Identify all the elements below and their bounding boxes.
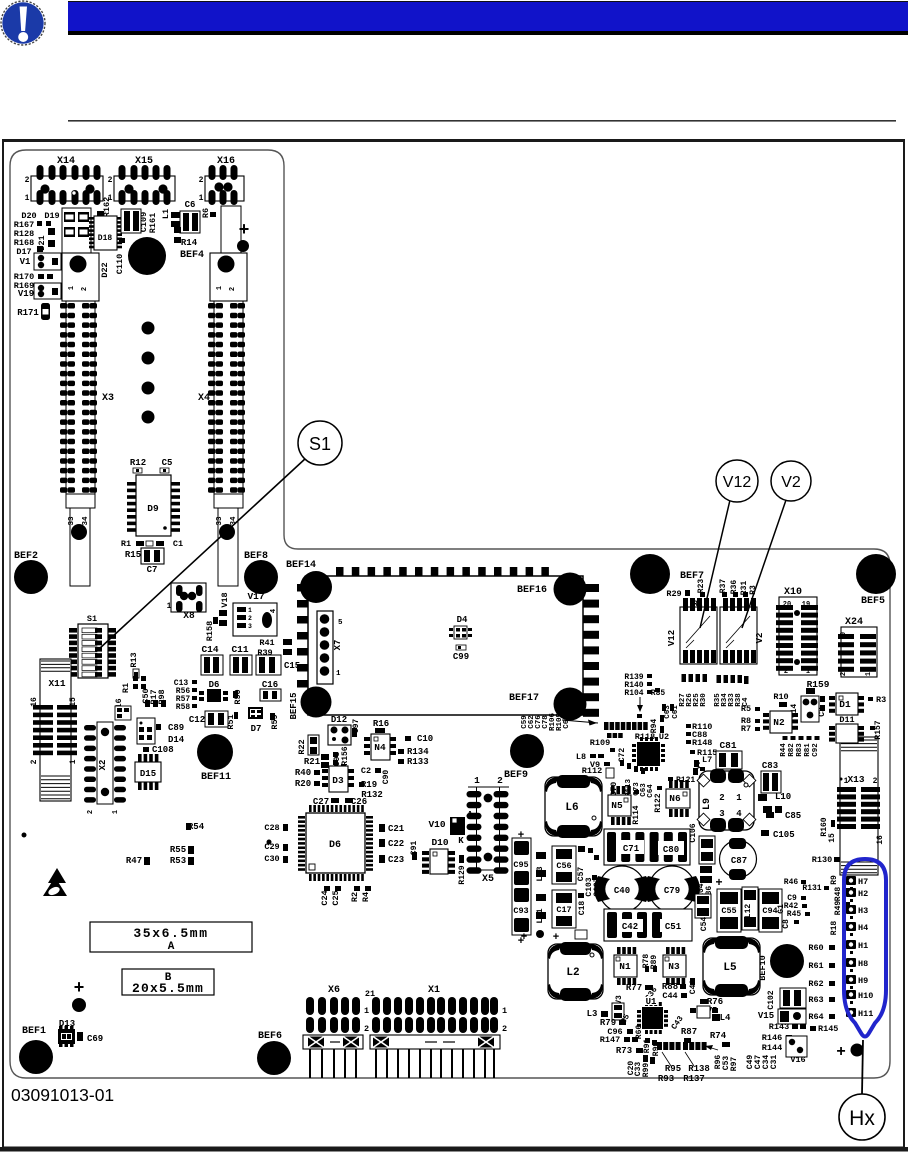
- svg-text:L11: L11: [535, 908, 545, 923]
- svg-text:X8: X8: [183, 610, 195, 621]
- svg-text:R160: R160: [820, 817, 829, 836]
- svg-text:21: 21: [365, 989, 375, 999]
- svg-text:R82: R82: [788, 743, 796, 757]
- svg-text:R10: R10: [773, 692, 788, 702]
- svg-text:H2: H2: [858, 889, 868, 899]
- svg-text:R48: R48: [834, 887, 843, 902]
- svg-text:BEF15: BEF15: [289, 692, 299, 719]
- svg-text:C12: C12: [189, 715, 205, 725]
- svg-text:R1: R1: [121, 683, 131, 693]
- svg-text:C42: C42: [622, 922, 638, 932]
- svg-text:R157: R157: [874, 720, 883, 739]
- svg-text:X4: X4: [198, 393, 210, 404]
- svg-text:R131: R131: [802, 884, 821, 893]
- svg-text:X10: X10: [784, 587, 802, 598]
- svg-text:X11: X11: [48, 678, 65, 689]
- svg-text:R6: R6: [201, 208, 211, 218]
- svg-text:C93: C93: [513, 906, 528, 916]
- svg-text:C94: C94: [762, 906, 777, 916]
- svg-text:R2: R2: [693, 600, 703, 609]
- svg-text:R49: R49: [834, 901, 843, 916]
- svg-text:H11: H11: [858, 1009, 873, 1019]
- svg-text:C30: C30: [264, 854, 279, 864]
- svg-text:R148: R148: [692, 738, 712, 748]
- svg-text:1: 1: [216, 286, 224, 290]
- svg-text:X3: X3: [102, 393, 114, 404]
- svg-text:3: 3: [248, 623, 252, 630]
- svg-text:C71: C71: [623, 844, 640, 854]
- svg-text:V19: V19: [18, 289, 34, 299]
- svg-text:C79: C79: [664, 886, 680, 896]
- svg-text:R47: R47: [126, 856, 142, 866]
- svg-text:S1: S1: [309, 434, 331, 454]
- svg-text:1: 1: [474, 775, 480, 786]
- svg-text:1: 1: [25, 194, 30, 203]
- svg-text:N6: N6: [669, 793, 681, 804]
- svg-text:V17: V17: [247, 591, 264, 602]
- svg-text:34: 34: [82, 516, 90, 526]
- svg-text:C8: C8: [782, 919, 791, 929]
- svg-text:R62: R62: [808, 979, 823, 989]
- svg-text:2: 2: [199, 176, 204, 185]
- svg-text:BEF17: BEF17: [509, 693, 539, 704]
- svg-text:R121: R121: [676, 776, 695, 785]
- svg-text:C2: C2: [361, 766, 371, 776]
- svg-text:BEF9: BEF9: [504, 770, 528, 781]
- svg-text:R133: R133: [407, 757, 429, 767]
- svg-text:C99: C99: [453, 652, 469, 662]
- svg-text:L4: L4: [720, 1013, 731, 1023]
- svg-text:R3: R3: [749, 585, 758, 595]
- svg-text:L5: L5: [723, 962, 737, 974]
- svg-text:N3: N3: [668, 961, 680, 972]
- svg-text:L7: L7: [702, 755, 712, 765]
- svg-text:R83: R83: [796, 743, 804, 757]
- svg-text:C80: C80: [663, 845, 679, 855]
- svg-text:R29: R29: [666, 589, 681, 599]
- svg-text:2: 2: [840, 672, 848, 676]
- svg-text:C51: C51: [665, 922, 682, 932]
- svg-text:2: 2: [719, 793, 724, 803]
- svg-text:R130: R130: [812, 855, 832, 865]
- svg-text:0: 0: [840, 632, 848, 636]
- svg-text:19: 19: [802, 601, 810, 609]
- svg-text:X15: X15: [135, 156, 153, 167]
- svg-text:D6: D6: [209, 680, 220, 690]
- svg-text:D14: D14: [168, 735, 185, 745]
- svg-text:R97: R97: [730, 1057, 739, 1072]
- svg-text:V2: V2: [781, 474, 801, 491]
- svg-text:R112: R112: [582, 766, 602, 776]
- svg-text:K: K: [458, 836, 464, 846]
- svg-text:H3: H3: [858, 906, 868, 916]
- svg-text:C6: C6: [185, 200, 196, 210]
- svg-text:L9: L9: [702, 798, 713, 810]
- svg-text:X2: X2: [98, 760, 108, 771]
- svg-text:16: 16: [876, 835, 885, 845]
- svg-text:D12: D12: [331, 715, 347, 725]
- svg-text:V2: V2: [755, 633, 765, 644]
- svg-text:C60: C60: [563, 715, 571, 729]
- svg-text:R53: R53: [170, 856, 186, 866]
- svg-text:2: 2: [108, 176, 113, 185]
- svg-text:R22: R22: [297, 739, 307, 754]
- svg-text:2: 2: [873, 777, 878, 786]
- svg-text:1: 1: [69, 759, 78, 764]
- svg-text:V16: V16: [790, 1055, 805, 1065]
- svg-text:H10: H10: [858, 991, 873, 1001]
- svg-text:R95: R95: [665, 1064, 681, 1074]
- svg-text:L13: L13: [535, 866, 545, 881]
- svg-text:BEF1: BEF1: [22, 1026, 46, 1037]
- svg-text:33: 33: [216, 516, 224, 526]
- svg-text:BEF11: BEF11: [201, 772, 231, 783]
- svg-text:2: 2: [81, 287, 89, 291]
- svg-text:R44: R44: [780, 743, 788, 757]
- svg-text:R77: R77: [626, 983, 642, 993]
- svg-text:1: 1: [68, 286, 76, 290]
- svg-text:D6: D6: [329, 840, 341, 851]
- svg-text:R104: R104: [624, 689, 643, 698]
- svg-text:C40: C40: [614, 886, 630, 896]
- svg-text:D17: D17: [16, 247, 31, 257]
- svg-text:1: 1: [806, 668, 810, 676]
- svg-text:C97: C97: [352, 719, 361, 734]
- svg-text:R99: R99: [642, 1063, 651, 1078]
- svg-text:C69: C69: [87, 1034, 103, 1044]
- svg-text:V12: V12: [723, 474, 752, 491]
- svg-text:H4: H4: [858, 923, 868, 933]
- svg-text:R138: R138: [688, 1064, 710, 1074]
- svg-text:V18: V18: [220, 592, 230, 607]
- svg-text:N5: N5: [611, 800, 623, 811]
- svg-text:BEF6: BEF6: [258, 1031, 282, 1042]
- svg-text:C81: C81: [719, 740, 736, 751]
- svg-text:BEF8: BEF8: [244, 551, 268, 562]
- svg-text:R7: R7: [741, 724, 751, 734]
- svg-text:R23: R23: [697, 579, 706, 594]
- svg-text:D3: D3: [332, 775, 344, 786]
- svg-text:R30: R30: [700, 693, 708, 707]
- svg-text:H9: H9: [858, 976, 868, 986]
- svg-text:R137: R137: [683, 1074, 705, 1084]
- svg-text:D19: D19: [44, 211, 59, 221]
- svg-text:R41: R41: [259, 638, 274, 648]
- svg-text:R146: R146: [762, 1033, 782, 1043]
- svg-text:X14: X14: [57, 156, 75, 167]
- svg-text:R61: R61: [808, 961, 823, 971]
- svg-text:1: 1: [248, 607, 252, 614]
- svg-text:C1: C1: [173, 539, 183, 549]
- svg-text:R73: R73: [616, 1046, 632, 1056]
- svg-text:C29: C29: [264, 842, 279, 852]
- svg-text:R147: R147: [600, 1035, 620, 1045]
- svg-text:R114: R114: [632, 805, 641, 824]
- svg-text:R132: R132: [361, 790, 383, 800]
- svg-text:C17: C17: [556, 905, 571, 915]
- svg-text:X16: X16: [217, 156, 235, 167]
- svg-text:BEF2: BEF2: [14, 551, 38, 562]
- svg-text:N2: N2: [773, 717, 785, 728]
- svg-text:L12: L12: [744, 904, 753, 919]
- svg-text:H7: H7: [858, 877, 868, 887]
- svg-text:R4: R4: [361, 892, 371, 902]
- svg-text:2: 2: [25, 176, 30, 185]
- svg-text:2: 2: [497, 775, 503, 786]
- svg-text:C105: C105: [773, 830, 795, 840]
- svg-text:BEF4: BEF4: [180, 250, 204, 261]
- svg-text:R18: R18: [830, 921, 839, 936]
- svg-text:C23: C23: [388, 855, 404, 865]
- svg-text:D7: D7: [251, 724, 262, 734]
- svg-text:D22: D22: [100, 262, 110, 277]
- svg-text:L2: L2: [566, 967, 579, 979]
- svg-text:R16: R16: [373, 719, 389, 729]
- svg-text:C10: C10: [417, 734, 433, 744]
- svg-text:1: 1: [844, 777, 849, 786]
- svg-text:1: 1: [167, 602, 172, 611]
- svg-text:C85: C85: [785, 811, 801, 821]
- svg-text:BEF5: BEF5: [861, 596, 885, 607]
- svg-text:R12: R12: [130, 458, 146, 468]
- svg-text:15: 15: [69, 697, 78, 707]
- svg-text:R55: R55: [170, 845, 186, 855]
- svg-text:R15: R15: [125, 550, 141, 560]
- svg-text:+: +: [836, 1043, 845, 1060]
- svg-text:R144: R144: [762, 1043, 782, 1053]
- svg-text:L10: L10: [775, 792, 791, 802]
- svg-text:1: 1: [736, 793, 742, 803]
- svg-text:L6: L6: [565, 802, 578, 814]
- svg-text:V12: V12: [667, 630, 677, 646]
- svg-text:L1: L1: [161, 209, 171, 219]
- svg-text:C92: C92: [812, 743, 820, 757]
- svg-text:D15: D15: [140, 769, 156, 779]
- svg-text:R93: R93: [658, 1074, 674, 1084]
- svg-text:C28: C28: [264, 823, 279, 833]
- svg-text:N4: N4: [374, 742, 386, 753]
- svg-text:V15: V15: [758, 1011, 774, 1021]
- svg-text:4: 4: [736, 809, 742, 819]
- svg-text:C18: C18: [578, 901, 587, 916]
- svg-text:X13: X13: [847, 774, 864, 785]
- svg-text:R40: R40: [295, 768, 311, 778]
- svg-text:H8: H8: [858, 959, 868, 969]
- svg-text:Hx: Hx: [849, 1107, 875, 1130]
- svg-text:3: 3: [719, 809, 724, 819]
- svg-text:R156: R156: [341, 746, 350, 765]
- svg-text:2: 2: [784, 668, 788, 676]
- svg-text:R94: R94: [650, 719, 659, 734]
- svg-text:15: 15: [828, 833, 837, 843]
- svg-text:C22: C22: [388, 839, 404, 849]
- svg-text:R145: R145: [818, 1024, 838, 1034]
- svg-text:X7: X7: [333, 640, 343, 651]
- svg-text:R1: R1: [121, 539, 131, 549]
- svg-text:R143: R143: [769, 1022, 789, 1032]
- svg-text:R14: R14: [181, 238, 198, 248]
- svg-text:R81: R81: [804, 743, 812, 757]
- svg-text:V10: V10: [428, 819, 445, 830]
- svg-text:2: 2: [30, 759, 39, 764]
- svg-text:D10: D10: [431, 837, 448, 848]
- svg-text:33: 33: [68, 516, 76, 526]
- svg-text:R60: R60: [808, 943, 823, 953]
- svg-text:R134: R134: [407, 747, 429, 757]
- svg-text:1: 1: [112, 810, 120, 814]
- svg-text:16: 16: [30, 697, 39, 707]
- svg-text:2: 2: [364, 1024, 369, 1034]
- svg-text:C27: C27: [313, 797, 329, 807]
- svg-text:X5: X5: [482, 874, 494, 885]
- svg-text:R161: R161: [148, 213, 158, 233]
- svg-text:BEF14: BEF14: [286, 560, 316, 571]
- svg-text:C108: C108: [152, 745, 174, 755]
- svg-text:R9: R9: [830, 875, 839, 885]
- svg-text:R5: R5: [741, 704, 751, 714]
- svg-text:1: 1: [199, 194, 204, 203]
- svg-text:R46: R46: [784, 878, 799, 887]
- svg-text:1: 1: [865, 672, 873, 676]
- svg-text:R45: R45: [787, 910, 802, 919]
- svg-text:C7: C7: [147, 565, 158, 575]
- svg-text:03091013-01: 03091013-01: [11, 1085, 114, 1105]
- svg-text:2: 2: [248, 615, 252, 622]
- svg-text:C5: C5: [162, 458, 173, 468]
- svg-text:V1: V1: [20, 257, 31, 267]
- svg-text:C14: C14: [201, 644, 218, 655]
- svg-text:S1: S1: [87, 614, 97, 624]
- svg-text:C25: C25: [331, 890, 341, 905]
- svg-text:H1: H1: [858, 941, 868, 951]
- svg-text:C106: C106: [689, 823, 698, 842]
- svg-text:C24: C24: [320, 890, 330, 905]
- svg-text:R87: R87: [681, 1027, 697, 1037]
- svg-text:+: +: [644, 875, 650, 887]
- svg-text:1: 1: [502, 1006, 507, 1016]
- svg-text:R58: R58: [176, 703, 191, 712]
- svg-text:1: 1: [336, 670, 341, 678]
- svg-text:X1: X1: [428, 985, 440, 996]
- svg-text:+: +: [553, 931, 559, 943]
- svg-text:+: +: [715, 875, 722, 889]
- svg-text:+: +: [74, 977, 85, 997]
- svg-text:X24: X24: [845, 617, 863, 628]
- svg-text:C31: C31: [770, 1055, 779, 1070]
- svg-text:20x5.5mm: 20x5.5mm: [132, 981, 204, 996]
- svg-text:R64: R64: [808, 1012, 823, 1022]
- svg-text:2: 2: [229, 287, 237, 291]
- svg-text:+: +: [521, 931, 527, 943]
- svg-text:U2: U2: [659, 732, 669, 742]
- svg-text:X6: X6: [328, 985, 340, 996]
- svg-text:R63: R63: [808, 995, 823, 1005]
- svg-text:C44: C44: [662, 991, 677, 1001]
- svg-text:C54: C54: [700, 917, 709, 932]
- svg-text:4: 4: [270, 609, 278, 613]
- svg-text:+: +: [239, 219, 250, 239]
- svg-text:C87: C87: [731, 856, 747, 866]
- svg-text:5: 5: [338, 619, 343, 627]
- svg-text:D4: D4: [457, 615, 468, 625]
- svg-text:L8: L8: [576, 752, 586, 762]
- svg-text:N1: N1: [619, 961, 631, 972]
- svg-text:35x6.5mm: 35x6.5mm: [133, 926, 208, 941]
- svg-text:C56: C56: [556, 861, 571, 871]
- svg-text:U1: U1: [646, 997, 657, 1007]
- svg-text:D9: D9: [147, 503, 159, 514]
- svg-text:R171: R171: [17, 308, 39, 318]
- svg-text:C110: C110: [115, 254, 125, 274]
- svg-text:R37: R37: [719, 579, 728, 594]
- svg-text:C95: C95: [513, 860, 528, 870]
- svg-text:R129: R129: [458, 865, 467, 884]
- svg-text:C89: C89: [168, 723, 184, 733]
- svg-text:L3: L3: [587, 1009, 598, 1019]
- svg-text:C21: C21: [388, 824, 405, 834]
- svg-text:2: 2: [502, 1024, 507, 1034]
- svg-text:C83: C83: [762, 761, 778, 771]
- svg-text:BEF16: BEF16: [517, 585, 547, 596]
- svg-text:R3: R3: [876, 695, 886, 705]
- svg-text:R13: R13: [129, 652, 139, 667]
- svg-text:D18: D18: [98, 234, 113, 243]
- svg-text:2: 2: [87, 810, 95, 814]
- svg-text:BEF10: BEF10: [758, 955, 768, 981]
- svg-text:D1: D1: [839, 699, 851, 710]
- svg-text:C90: C90: [382, 770, 391, 785]
- svg-text:20: 20: [783, 601, 791, 609]
- svg-text:C55: C55: [721, 906, 736, 916]
- svg-text:R21: R21: [304, 757, 321, 767]
- svg-text:1: 1: [364, 1006, 369, 1016]
- svg-text:R122: R122: [654, 793, 663, 812]
- svg-text:+: +: [518, 829, 524, 841]
- svg-text:C102: C102: [767, 990, 776, 1009]
- svg-text:9: 9: [865, 635, 873, 639]
- svg-text:R109: R109: [590, 738, 610, 748]
- svg-text:A: A: [168, 941, 175, 953]
- svg-text:C11: C11: [231, 644, 248, 655]
- svg-text:R20: R20: [295, 779, 311, 789]
- svg-text:R74: R74: [710, 1031, 727, 1041]
- svg-text:R2: R2: [350, 892, 360, 902]
